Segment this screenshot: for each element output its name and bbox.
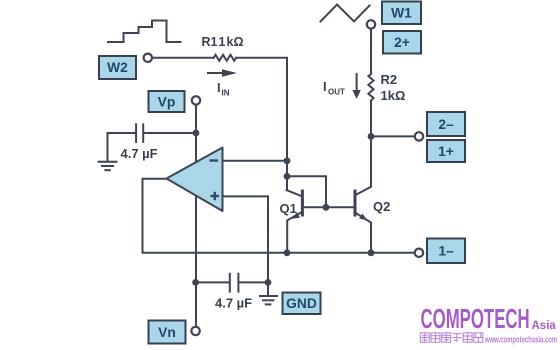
svg-text:2–: 2– xyxy=(438,117,454,132)
svg-text:Vn: Vn xyxy=(158,325,176,340)
svg-text:R1 1 kΩ: R1 1 kΩ xyxy=(202,35,244,49)
svg-text:Q1: Q1 xyxy=(280,201,297,216)
svg-text:1kΩ: 1kΩ xyxy=(381,88,406,103)
svg-text:2+: 2+ xyxy=(394,35,410,50)
svg-text:OUT: OUT xyxy=(328,88,345,97)
svg-text:Q2: Q2 xyxy=(373,199,390,214)
svg-text:COMPOTECH: COMPOTECH xyxy=(421,303,530,335)
svg-text:1–: 1– xyxy=(438,244,454,259)
svg-text:I: I xyxy=(323,79,327,94)
svg-text:4.7 µF: 4.7 µF xyxy=(215,296,252,311)
svg-text:Asia: Asia xyxy=(532,320,557,332)
svg-text:1+: 1+ xyxy=(438,144,454,159)
svg-text:IN: IN xyxy=(222,89,230,98)
svg-text:GND: GND xyxy=(286,296,317,311)
svg-text:I: I xyxy=(217,80,221,95)
svg-text:4.7 µF: 4.7 µF xyxy=(121,146,158,161)
svg-text:www.compotechasia.com: www.compotechasia.com xyxy=(484,334,557,345)
svg-text:Vp: Vp xyxy=(158,94,176,109)
svg-text:R2: R2 xyxy=(381,72,398,87)
svg-text:W2: W2 xyxy=(107,60,128,75)
svg-text:W1: W1 xyxy=(391,6,412,21)
